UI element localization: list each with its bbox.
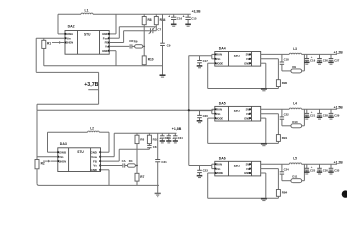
capacitor C32 out <box>159 133 170 140</box>
capacitor C18 snub <box>280 54 289 71</box>
wire input feed DA5 <box>189 109 215 113</box>
ground below C9 <box>160 75 166 77</box>
svg-text:R4: R4 <box>129 159 133 163</box>
svg-text:C8: C8 <box>153 145 157 149</box>
pin labels DA6 right <box>244 162 251 175</box>
wire outer left vertical <box>35 38 38 72</box>
ground below C16 <box>171 24 177 26</box>
ground below C15 <box>185 24 191 26</box>
wire +3.7V lead down <box>37 90 99 111</box>
svg-text:+1,5В: +1,5В <box>334 106 344 110</box>
resistor R91 <box>276 135 287 144</box>
svg-text:MODE: MODE <box>216 172 224 175</box>
svg-text:C9: C9 <box>167 44 171 48</box>
inductor L2 <box>88 127 100 133</box>
resistor R8b <box>135 133 144 165</box>
svg-text:C15: C15 <box>191 16 197 20</box>
svg-text:D10: D10 <box>292 120 298 124</box>
resistor R10 <box>142 56 154 66</box>
capacitor C7 trimmer <box>149 27 162 34</box>
ground DA5 rail <box>261 144 267 146</box>
pin labels DA4 left <box>215 53 224 66</box>
resistor R2 <box>35 160 45 184</box>
wire GND loop DA6 <box>208 173 279 198</box>
svg-text:C23: C23 <box>203 169 209 173</box>
capacitor C17 input <box>197 56 208 66</box>
resistor R4 stadium <box>125 159 138 167</box>
svg-text:GND: GND <box>102 49 108 53</box>
pin labels DA2 left <box>64 32 74 45</box>
node +1.8V output label <box>172 127 182 131</box>
svg-text:SHDN: SHDN <box>59 159 66 163</box>
node +1,5В label <box>334 106 344 110</box>
ground C19 <box>304 62 309 64</box>
resistor R1 <box>42 38 52 66</box>
svg-text:STU: STU <box>234 109 240 113</box>
wire output rail DA3 <box>114 132 176 134</box>
svg-text:DA3: DA3 <box>60 142 67 146</box>
wire pin5 GND drop <box>109 51 116 66</box>
svg-text:L4: L4 <box>293 102 297 106</box>
svg-text:+3,7В: +3,7В <box>84 82 98 88</box>
capacitor C34 out <box>172 133 183 140</box>
resistor R84 <box>276 190 287 199</box>
svg-text:C22: C22 <box>284 113 290 117</box>
wire SW to inductor DA5 <box>261 108 290 110</box>
svg-text:Vin: Vin <box>216 167 221 171</box>
inductor L5 <box>289 157 301 165</box>
wire FB divider R84 <box>261 169 279 190</box>
svg-text:C26: C26 <box>323 59 329 63</box>
svg-text:C21: C21 <box>310 114 316 118</box>
capacitor C24 snub <box>280 164 289 181</box>
svg-text:+: + <box>311 55 313 59</box>
wire pin2 staircase <box>109 27 156 39</box>
op-amp regulator DA5 <box>215 101 261 121</box>
svg-text:C31: C31 <box>161 160 167 164</box>
ground C32 <box>160 141 165 143</box>
svg-text:GND: GND <box>90 150 96 154</box>
pin labels DA3 right <box>90 150 101 172</box>
wire pin1 riser DA3 <box>101 132 110 152</box>
wire pin3 staircase DA3 <box>101 149 150 161</box>
svg-text:RUN: RUN <box>216 162 222 166</box>
inductor L4 <box>289 102 301 110</box>
svg-text:C34: C34 <box>178 136 183 140</box>
svg-text:C25: C25 <box>310 169 316 173</box>
wire main bus +3.7V <box>37 109 213 111</box>
svg-text:STU: STU <box>77 150 84 154</box>
svg-text:Vin: Vin <box>59 155 64 159</box>
svg-text:DA6: DA6 <box>219 156 226 160</box>
svg-text:R8: R8 <box>148 18 152 22</box>
svg-text:R84: R84 <box>282 191 288 195</box>
svg-text:R8: R8 <box>140 137 144 141</box>
capacitor C26 out <box>317 54 328 62</box>
svg-text:+3,3В: +3,3В <box>192 9 202 13</box>
capacitor CA <box>101 159 126 168</box>
resistor R10b <box>147 133 158 145</box>
wire bottom rail DA3 <box>37 183 159 185</box>
capacitor C28 out <box>317 109 328 117</box>
svg-text:GND: GND <box>90 168 96 172</box>
capacitor C35 out <box>329 164 340 172</box>
ground DA6 rail <box>261 199 267 201</box>
wire C9 column top <box>162 14 164 43</box>
svg-text:GWB: GWB <box>59 150 66 154</box>
svg-text:DA4: DA4 <box>219 47 226 51</box>
resistor R84 <box>154 14 165 30</box>
svg-text:C35: C35 <box>334 169 340 173</box>
ground C25 <box>304 172 309 174</box>
svg-text:Vin: Vin <box>216 57 221 61</box>
wire SW to inductor DA4 <box>261 53 290 55</box>
diode D10 oval <box>282 109 305 128</box>
ground C21 <box>304 117 309 119</box>
svg-text:Vin: Vin <box>216 112 221 116</box>
capacitor C20 input <box>197 111 208 121</box>
svg-text:+: + <box>159 136 161 140</box>
capacitor C25 out <box>305 164 316 172</box>
ground C30 <box>317 172 322 174</box>
wire input feed DA4 <box>189 54 215 58</box>
node +3.3V output label <box>192 9 202 13</box>
wire SW to inductor DA6 <box>261 163 290 165</box>
ground DA4 rail <box>261 89 267 91</box>
wire output column DA3 <box>157 133 159 159</box>
svg-text:D9: D9 <box>292 65 296 69</box>
svg-text:R1: R1 <box>47 41 51 45</box>
wire output rail DA5 <box>302 108 338 110</box>
svg-text:L2: L2 <box>90 127 94 131</box>
svg-text:R91: R91 <box>282 136 288 140</box>
svg-text:C17: C17 <box>203 59 209 63</box>
node +1,2В label <box>334 51 344 55</box>
svg-text:Vsw: Vsw <box>91 155 98 159</box>
wire pin5 GND drop DA3 <box>101 170 110 186</box>
svg-text:DA2: DA2 <box>68 25 75 29</box>
svg-text:+1,8В: +1,8В <box>172 127 182 131</box>
svg-text:FB: FB <box>93 159 97 163</box>
svg-text:Vs: Vs <box>93 164 97 168</box>
resistor R8 <box>142 14 152 46</box>
wire Vin row <box>36 37 65 39</box>
ground DA3 output <box>155 193 161 196</box>
svg-text:RUN: RUN <box>216 108 222 112</box>
wire GND loop DA4 <box>208 63 279 88</box>
svg-text:MODE: MODE <box>216 117 224 120</box>
svg-text:L1: L1 <box>85 9 89 13</box>
svg-text:+: + <box>183 15 185 19</box>
node +1,2В label <box>334 160 344 164</box>
svg-text:L3: L3 <box>293 47 297 51</box>
svg-text:DA5: DA5 <box>219 101 226 105</box>
wire top bus +3.3V rail <box>58 13 191 15</box>
node arrow shutdown input <box>52 41 65 44</box>
ground C27 <box>328 62 333 64</box>
capacitor C8 <box>147 145 157 149</box>
wire output column lower DA3 <box>157 162 159 193</box>
svg-text:RUN: RUN <box>216 53 222 57</box>
wire outer bottom rail <box>37 72 99 89</box>
capacitor C22 snub <box>280 109 289 126</box>
capacitor C23 input <box>197 166 208 176</box>
op-amp U1 DA2 regulator box <box>65 25 109 55</box>
op-amp regulator DA6 <box>215 156 261 176</box>
ground C17 <box>197 66 203 68</box>
svg-text:STU: STU <box>234 164 240 168</box>
wire GND loop DA5 <box>208 118 279 143</box>
svg-text:C24: C24 <box>284 168 290 172</box>
inductor L1 <box>81 9 93 15</box>
wire output rail DA4 <box>302 53 338 55</box>
wire pin2 riser DA3 <box>101 133 115 156</box>
wire C9 column bottom <box>162 46 164 75</box>
svg-text:C19: C19 <box>310 59 316 63</box>
ground C26 <box>317 62 322 64</box>
capacitor C33 out <box>167 133 171 140</box>
svg-text:C7: C7 <box>157 28 161 32</box>
svg-text:CR: CR <box>129 39 133 43</box>
svg-text:STU: STU <box>84 32 91 36</box>
capacitor C15 polarized <box>183 14 197 24</box>
svg-text:C18: C18 <box>284 58 290 62</box>
pin labels DA6 left <box>215 162 224 175</box>
pin labels DA2 right <box>102 32 110 53</box>
inductor L3 <box>289 47 301 55</box>
capacitor C19 out <box>305 54 316 62</box>
svg-text:+1,2В: +1,2В <box>334 160 344 164</box>
capacitor C21 out <box>305 109 316 117</box>
ground C28 <box>317 117 322 119</box>
wire loop right riser <box>109 14 116 34</box>
svg-text:R10: R10 <box>148 57 154 61</box>
svg-text:C30: C30 <box>323 169 329 173</box>
wire loop left riser DA3 <box>48 132 58 152</box>
svg-text:CA: CA <box>122 159 126 163</box>
capacitor C27 out <box>329 54 340 62</box>
wire Vin row DA3 <box>37 110 58 159</box>
svg-text:MODE: MODE <box>216 62 224 65</box>
svg-text:R2: R2 <box>41 161 45 165</box>
resistor R90 <box>276 80 287 89</box>
capacitor CR <box>109 39 134 48</box>
ground C35 <box>328 172 333 174</box>
node +3.7V battery label <box>84 82 98 90</box>
ground C34 <box>173 141 178 143</box>
svg-text:C28: C28 <box>323 114 329 118</box>
capacitor C31 <box>155 160 167 164</box>
pin labels DA4 right <box>244 53 251 66</box>
ground C20 <box>197 121 203 123</box>
svg-text:+1,2В: +1,2В <box>334 51 344 55</box>
resistor R7 <box>135 166 145 186</box>
wire FB divider R91 <box>261 114 279 135</box>
capacitor C30 out <box>317 164 328 172</box>
node arrow shutdown DA3 <box>43 160 58 163</box>
pin labels DA5 left <box>215 108 224 121</box>
diode D9 oval <box>282 54 305 73</box>
svg-text:R9: R9 <box>134 40 138 44</box>
capacitor C9 <box>160 43 171 47</box>
svg-text:L5: L5 <box>293 157 297 161</box>
svg-text:Vin: Vin <box>66 36 71 40</box>
wire input feed DA6 <box>189 164 215 168</box>
op-amp U2 DA3 regulator box <box>58 142 101 172</box>
svg-text:R90: R90 <box>282 81 288 85</box>
pin labels DA3 left <box>57 150 66 163</box>
wire right feed bus vertical <box>188 56 190 166</box>
svg-text:C27: C27 <box>334 59 340 63</box>
op-amp regulator DA4 <box>215 47 261 67</box>
resistor R9 stadium <box>134 40 145 49</box>
svg-text:C29: C29 <box>334 114 340 118</box>
pin labels DA5 right <box>244 108 251 121</box>
wire loop top DA3 <box>48 131 110 133</box>
wire bottom rail DA2 <box>44 65 163 67</box>
svg-text:C20: C20 <box>203 114 209 118</box>
svg-text:R7: R7 <box>140 175 144 179</box>
wire FB divider R90 <box>261 59 279 80</box>
capacitor C29 out <box>329 109 340 117</box>
wire output rail DA6 <box>302 163 338 165</box>
svg-text:+: + <box>311 165 313 169</box>
capacitor C16 polarized <box>168 14 182 24</box>
ground C29 <box>328 117 333 119</box>
svg-text:+: + <box>168 15 170 19</box>
wire pin3 staircase <box>109 31 150 43</box>
ground C33 <box>166 141 171 143</box>
ground C23 <box>197 176 203 178</box>
wire loop left riser <box>58 14 65 34</box>
svg-text:D11: D11 <box>292 175 297 179</box>
svg-text:+: + <box>172 136 174 140</box>
svg-text:STU: STU <box>234 54 240 58</box>
svg-text:SHDN: SHDN <box>66 41 73 45</box>
diode D11 oval <box>282 164 305 183</box>
black dot artifact <box>342 190 347 197</box>
svg-text:+: + <box>311 110 313 114</box>
wire R8 to R10 column <box>143 46 145 56</box>
